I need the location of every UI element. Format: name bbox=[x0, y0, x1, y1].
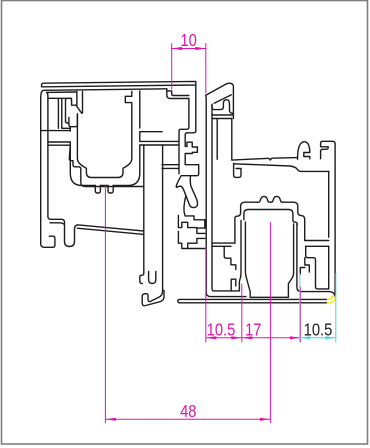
dim105R arrow right bbox=[325, 336, 336, 339]
sash right arm top bbox=[305, 240, 329, 242]
frame J-hook outer bbox=[142, 290, 164, 305]
frame body top inner bbox=[47, 92, 77, 219]
sash rebate floor top bbox=[232, 158, 298, 161]
svg-text:10: 10 bbox=[180, 31, 196, 51]
sash right cap bbox=[321, 141, 336, 296]
sash right floor bbox=[301, 292, 335, 297]
frame bottom ledge2 bbox=[50, 223, 65, 225]
stem right outer bbox=[288, 224, 293, 297]
U-channel foot left bbox=[95, 186, 100, 194]
frame bottom web bot bbox=[77, 228, 144, 234]
dim48 arrow right bbox=[260, 418, 271, 421]
sash left arm bot bbox=[212, 245, 231, 247]
dim105L line bbox=[206, 337, 242, 339]
frame upstand inner bbox=[179, 99, 189, 174]
sash hook cavity bbox=[212, 100, 233, 114]
sash bead channel bbox=[217, 119, 232, 160]
dim17 line bbox=[242, 337, 301, 339]
dim17 arrow left bbox=[242, 336, 253, 339]
stem left inner bbox=[245, 222, 250, 297]
U-channel inner bbox=[77, 91, 131, 177]
frame body top line2 bbox=[44, 89, 167, 91]
dim105R arrow left bbox=[300, 336, 311, 339]
frame bottom cup bbox=[62, 219, 78, 246]
dim105R ext left bbox=[299, 274, 301, 343]
interlock upper hook bbox=[185, 216, 205, 220]
frame bead seat bbox=[167, 89, 189, 99]
frame top cap bbox=[42, 81, 196, 86]
stem right inner bbox=[297, 225, 301, 292]
frame right web b bbox=[140, 144, 179, 146]
dim48 ext right bbox=[269, 223, 271, 423]
sash inner right wall bbox=[328, 171, 330, 289]
sash hook inner diag bbox=[214, 95, 231, 103]
frame staircase bbox=[69, 145, 144, 186]
U-channel outer left bbox=[70, 91, 140, 186]
frame body top outer bbox=[41, 90, 55, 247]
dim105R ext right bbox=[335, 274, 337, 343]
sash rebate floor bot bbox=[234, 164, 329, 172]
frame upstand outer bbox=[181, 85, 199, 176]
sash outer left wall bbox=[206, 95, 246, 296]
dim105L ext right bbox=[241, 284, 243, 342]
frame flipper gasket bbox=[176, 176, 197, 208]
dim105R line bbox=[300, 337, 336, 339]
sash left comb a bbox=[224, 246, 236, 269]
dome inner bbox=[244, 210, 297, 225]
frame lower hook cup bbox=[66, 114, 78, 127]
svg-text:48: 48 bbox=[180, 402, 196, 422]
frame right web d bbox=[162, 167, 179, 169]
sash hook outer bbox=[206, 83, 234, 95]
dim10 ext right bbox=[205, 44, 207, 94]
dim48 ext left bbox=[104, 186, 106, 423]
interlock lower teeth bbox=[178, 232, 204, 249]
frame flipper tail bbox=[184, 196, 186, 216]
frame J-hook inner bbox=[144, 291, 162, 302]
dim105L arrow left bbox=[206, 336, 217, 339]
frame web lower line bbox=[48, 144, 70, 146]
U-channel foot right bbox=[108, 186, 113, 194]
frame right web c bbox=[162, 164, 179, 166]
sash slab top bbox=[250, 296, 288, 298]
frame left box divider bbox=[41, 98, 72, 130]
sash hook ledge bbox=[212, 93, 233, 119]
sash right arm bot bbox=[306, 245, 329, 247]
interlock lower band bbox=[188, 248, 205, 250]
sash inner left wall bbox=[212, 105, 239, 291]
yellow corner arc bbox=[328, 295, 336, 303]
interlock mid hook bbox=[197, 220, 205, 234]
dim17 arrow right bbox=[290, 336, 301, 339]
stem left outer bbox=[239, 221, 241, 291]
dim105L ext left bbox=[205, 248, 207, 342]
sash left comb b bbox=[231, 279, 236, 291]
sash floor stub hook bbox=[234, 164, 241, 178]
svg-text:10.5: 10.5 bbox=[304, 320, 333, 340]
svg-text:17: 17 bbox=[245, 320, 261, 340]
sash left arm top bbox=[212, 242, 235, 244]
sash slab mid bbox=[178, 299, 328, 302]
dim105L arrow right bbox=[231, 336, 242, 339]
frame right web a bbox=[140, 140, 179, 142]
frame divider left bbox=[140, 145, 144, 283]
dim10 line bbox=[172, 48, 206, 50]
frame divider right bbox=[149, 145, 163, 291]
frame web upper line bbox=[48, 141, 70, 143]
frame gasket bar bbox=[66, 98, 77, 121]
dim48 line bbox=[105, 418, 270, 420]
frame right web top bbox=[140, 131, 162, 133]
dome outer bbox=[235, 196, 305, 243]
dim17 ext right bbox=[299, 287, 301, 342]
frame bottom web top bbox=[77, 225, 144, 231]
dim10 arrow left bbox=[172, 47, 183, 50]
interlock wall left bbox=[178, 216, 197, 229]
dim10 arrow right bbox=[195, 47, 206, 50]
sash right comb bbox=[300, 258, 309, 274]
frame vee notch bbox=[76, 92, 82, 114]
sash ledge hump bbox=[298, 142, 310, 160]
svg-text:10.5: 10.5 bbox=[207, 320, 236, 340]
sash right channel L-wall bbox=[306, 246, 329, 289]
dim10 ext left bbox=[171, 44, 173, 90]
dim48 arrow left bbox=[105, 418, 116, 421]
